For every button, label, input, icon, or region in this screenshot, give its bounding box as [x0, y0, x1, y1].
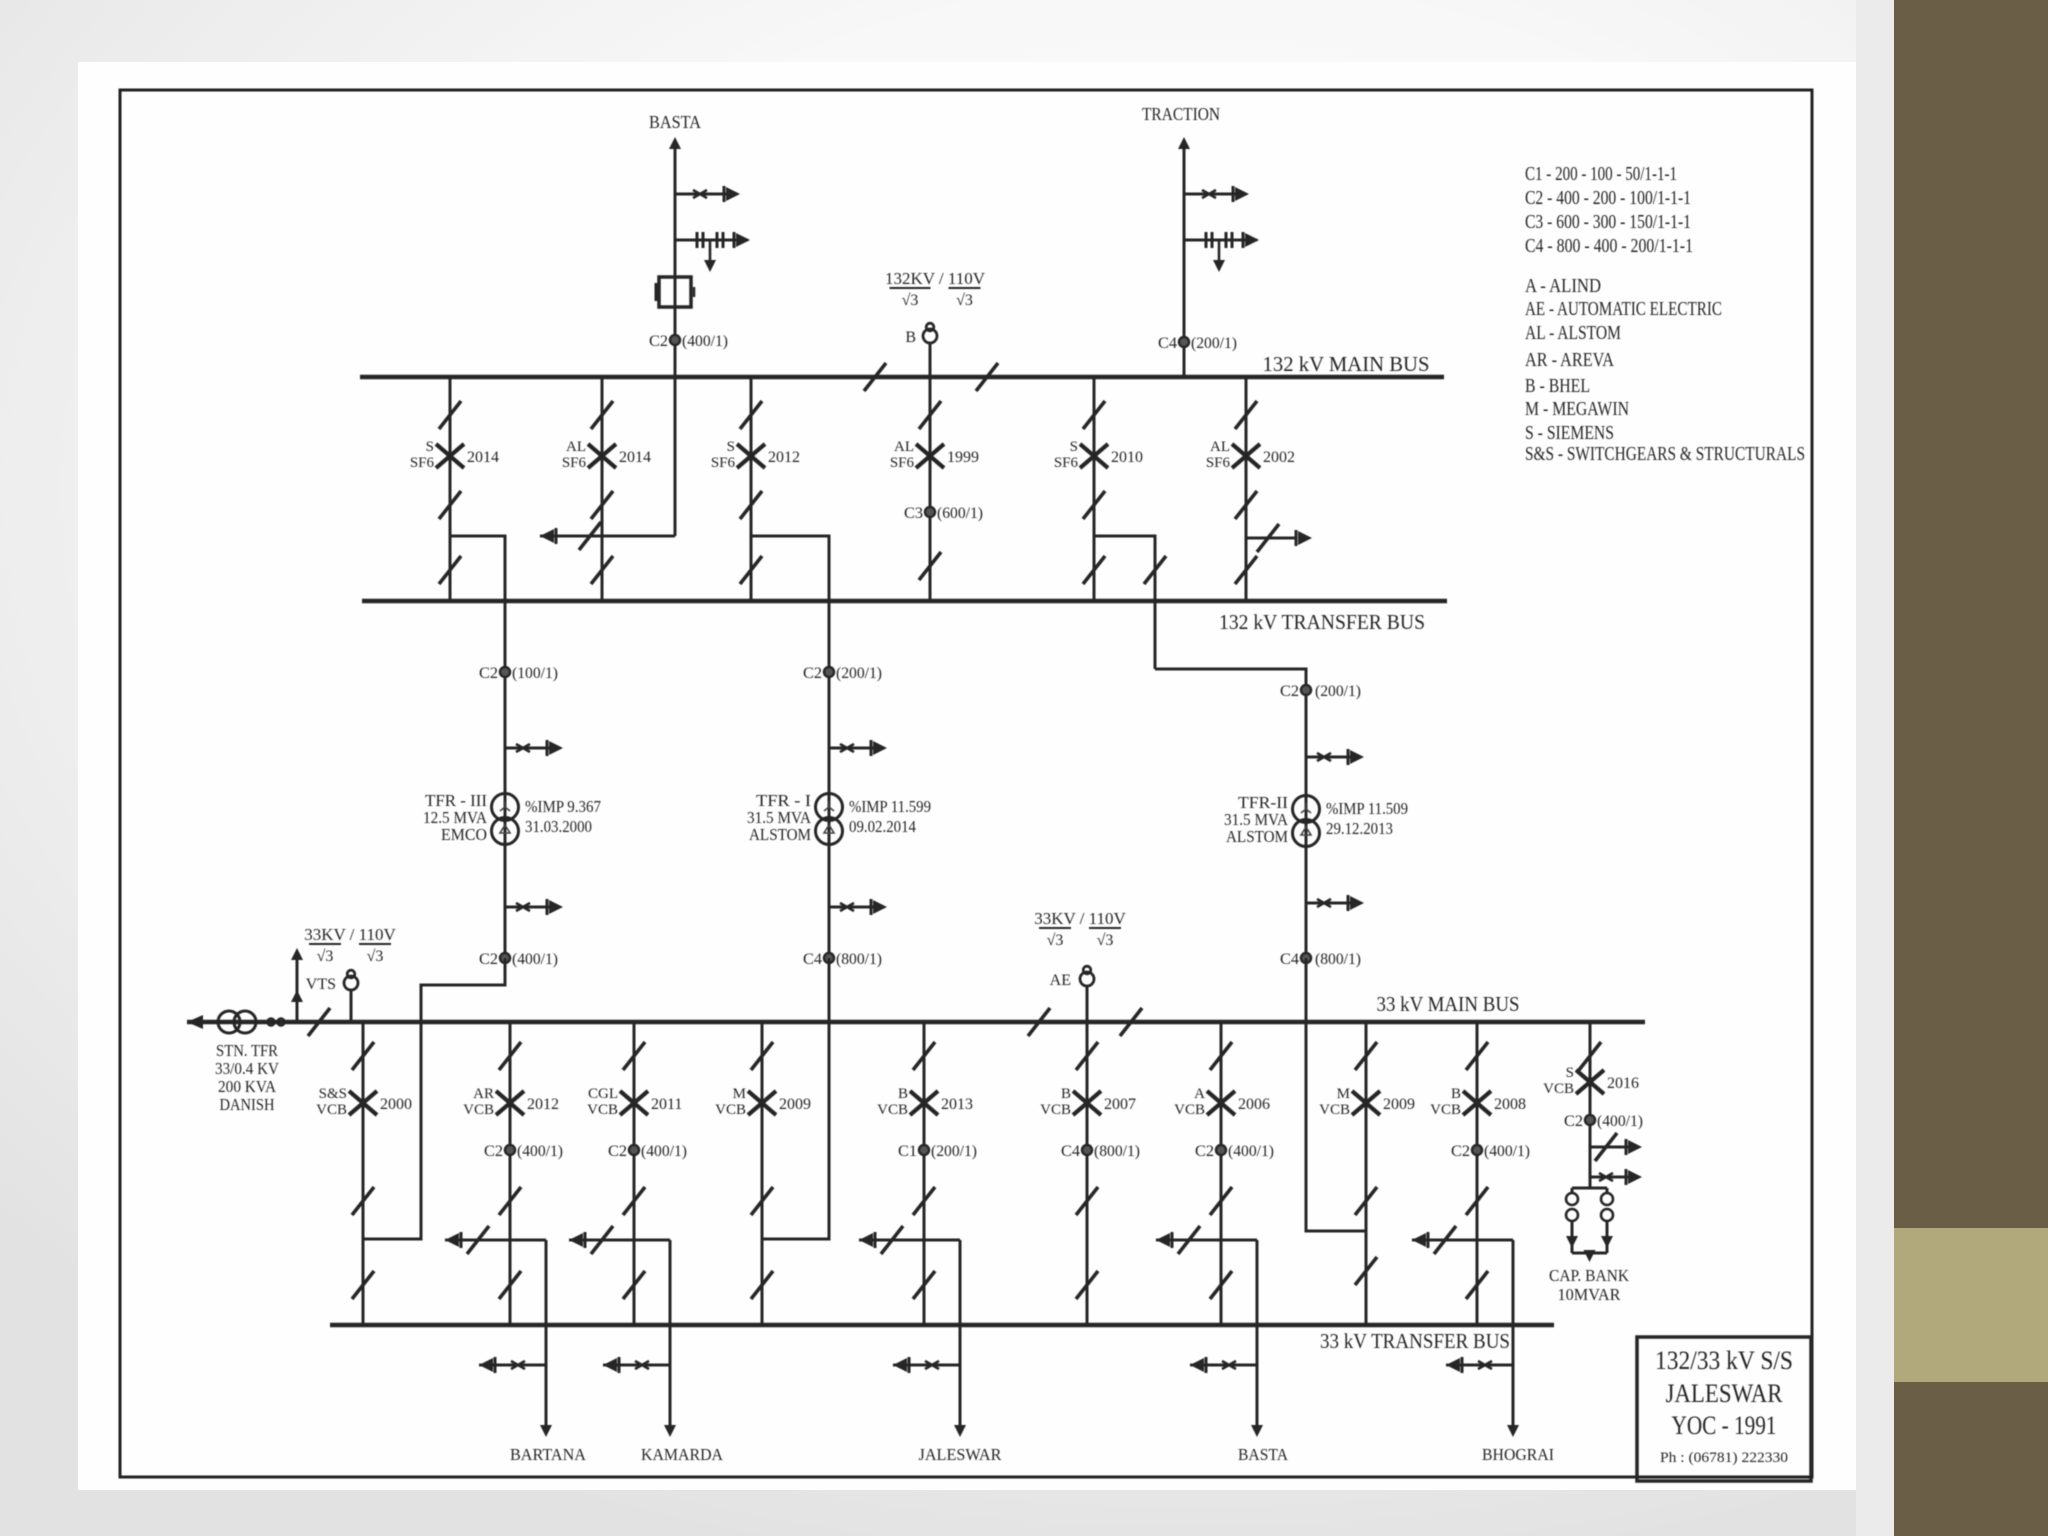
svg-text:SF6: SF6 — [1206, 455, 1231, 471]
svg-text:VCB: VCB — [715, 1102, 746, 1118]
breaker M VCB 2009 — [1352, 1091, 1380, 1115]
isolator above transfer bus, bay S 2014 — [439, 556, 461, 584]
svg-text:(800/1): (800/1) — [836, 951, 882, 968]
svg-text:SF6: SF6 — [711, 455, 736, 471]
isolator below bus, bay S 2016 — [1579, 1042, 1601, 1070]
isolator mid, bay A 2006 — [1210, 1187, 1232, 1215]
isolator above transfer bus, bay S&S 2000 — [352, 1271, 374, 1299]
transfer link horizontal, BARTANA — [445, 1239, 546, 1242]
CT C2 (400/1) bay AR 2012 — [505, 1145, 515, 1155]
CT C2 (400/1) — [500, 953, 510, 963]
isolator mid, bay CGL 2011 — [623, 1187, 645, 1215]
svg-text:09.02.2014: 09.02.2014 — [849, 817, 916, 836]
svg-text:C2: C2 — [608, 1143, 627, 1160]
arrow TRACTION outgoing — [1178, 137, 1190, 149]
svg-text:C2: C2 — [1451, 1143, 1470, 1160]
breaker S SF6 2014 — [436, 444, 464, 468]
transfer link horizontal, BASTA — [1156, 1239, 1257, 1242]
wire TFR-III tail to S&S bay — [363, 958, 505, 1239]
132kV bay S SF6 2014 at x=450 — [449, 377, 452, 601]
CT C4 (200/1) on TRACTION — [1179, 337, 1189, 347]
isolator mid, bay M 2009 — [1355, 1187, 1377, 1215]
svg-text:√3: √3 — [317, 948, 334, 965]
isolator above breaker S 2012 — [740, 401, 762, 429]
outgoing vertical BASTA — [1256, 1240, 1259, 1425]
svg-text:AR - AREVA: AR - AREVA — [1525, 349, 1614, 371]
bottom tap with drawout, BASTA — [1190, 1364, 1257, 1367]
svg-text:TRACTION: TRACTION — [1142, 104, 1220, 124]
isolator above transfer bus, bay AL 2002 — [1235, 556, 1257, 584]
svg-text:%IMP 9.367: %IMP 9.367 — [525, 797, 601, 816]
breaker B VCB 2008 — [1463, 1091, 1491, 1115]
svg-text:C4 - 800 - 400 - 200/1-1-1: C4 - 800 - 400 - 200/1-1-1 — [1525, 235, 1693, 257]
svg-text:(200/1): (200/1) — [1191, 335, 1237, 352]
svg-text:33KV / 110V: 33KV / 110V — [304, 925, 396, 944]
svg-text:2011: 2011 — [651, 1096, 682, 1113]
svg-text:SF6: SF6 — [562, 455, 587, 471]
svg-text:DANISH: DANISH — [220, 1095, 275, 1114]
transformer chain at x=505: ('TFR - III', 62) — [504, 601, 507, 958]
drawout tap with arrow (HV side TFR-II) — [1306, 756, 1352, 759]
isolator below bus, bay B 2013 — [913, 1042, 935, 1070]
svg-text:(200/1): (200/1) — [836, 665, 882, 682]
title box 132/33 kV S/S JALESWAR — [1637, 1337, 1811, 1481]
isolator below breaker AL 2002 — [1235, 491, 1257, 519]
svg-text:C4: C4 — [1280, 951, 1299, 968]
svg-text:M - MEGAWIN: M - MEGAWIN — [1525, 398, 1629, 420]
breaker AL SF6 1999 — [916, 444, 944, 468]
svg-text:AL - ALSTOM: AL - ALSTOM — [1525, 322, 1621, 344]
transformer chain at x=829: ('TFR - I', 55) — [828, 601, 831, 958]
arrow outgoing BASTA — [1251, 1425, 1263, 1437]
isolator mid, bay B 2008 — [1466, 1187, 1488, 1215]
svg-text:√3: √3 — [902, 292, 919, 309]
svg-text:2007: 2007 — [1104, 1096, 1136, 1113]
isolator mid, bay S&S 2000 — [352, 1187, 374, 1215]
svg-text:31.03.2000: 31.03.2000 — [525, 817, 592, 836]
svg-text:CGL: CGL — [588, 1086, 618, 1102]
TFR-II feed jog from transfer-bus crossing — [1154, 601, 1157, 669]
svg-text:C2: C2 — [479, 951, 498, 968]
svg-text:AL: AL — [566, 439, 586, 455]
CT C3 (600/1) on AL 1999 bay — [925, 507, 935, 517]
isolator below bus, bay AR 2012 — [499, 1042, 521, 1070]
CT C2 (400/1) on BASTA — [670, 335, 680, 345]
breaker CGL VCB 2011 — [620, 1091, 648, 1115]
svg-text:AR: AR — [473, 1086, 494, 1102]
arrow outgoing BARTANA — [540, 1425, 552, 1437]
transformer TFR-II 31.5 MVA ALSTOM — [1293, 796, 1320, 847]
svg-text:M: M — [1337, 1086, 1350, 1102]
breaker S SF6 2012 — [737, 444, 765, 468]
svg-text:(200/1): (200/1) — [931, 1143, 977, 1160]
svg-text:ALSTOM: ALSTOM — [1226, 827, 1288, 846]
svg-text:S&S - SWITCHGEARS & STRUCTURAL: S&S - SWITCHGEARS & STRUCTURALS — [1525, 443, 1805, 465]
schematic frame — [120, 90, 1812, 1477]
svg-text:CAP. BANK: CAP. BANK — [1549, 1266, 1630, 1285]
line tap isolator on BASTA — [675, 193, 728, 196]
33 kV transfer bus — [330, 1323, 1554, 1328]
drawout taps with arrows, cap bank feeder — [1590, 1146, 1630, 1149]
svg-text:VTS: VTS — [306, 976, 336, 993]
capacitor bank CAP. BANK 10MVAR — [1572, 1187, 1607, 1190]
33kV bay S&S VCB 2000 at x=363 — [362, 1022, 365, 1325]
svg-text:(400/1): (400/1) — [517, 1143, 563, 1160]
CT C2 (200/1) on TFR-II — [1301, 685, 1311, 695]
svg-text:132 kV TRANSFER BUS: 132 kV TRANSFER BUS — [1219, 610, 1425, 634]
isolator below bus, bay M 2009 — [751, 1042, 773, 1070]
bus isolator on 132 kV main bus (right of PT B) — [976, 363, 998, 391]
CT C2 (400/1) bay CGL 2011 — [629, 1145, 639, 1155]
svg-text:B - BHEL: B - BHEL — [1525, 375, 1590, 397]
svg-text:2000: 2000 — [380, 1096, 412, 1113]
33kV bay S VCB 2016 (capacitor bank) — [1589, 1022, 1592, 1188]
transfer link with arrow at BASTA bay — [674, 377, 677, 536]
svg-text:SF6: SF6 — [410, 455, 435, 471]
svg-text:C2: C2 — [484, 1143, 503, 1160]
isolator above transfer bus, bay B 2007 — [1076, 1271, 1098, 1299]
wire jog bay S-2014 to TFR-III chain — [450, 536, 505, 601]
CT C4 (800/1) on TFR-II — [1301, 953, 1311, 963]
svg-text:C2: C2 — [649, 333, 668, 350]
svg-text:√3: √3 — [1097, 932, 1114, 949]
svg-text:132/33 kV S/S: 132/33 kV S/S — [1655, 1346, 1793, 1375]
svg-text:VCB: VCB — [587, 1102, 618, 1118]
svg-text:S: S — [727, 439, 735, 455]
isolator mid, bay M 2009 — [751, 1187, 773, 1215]
svg-text:2002: 2002 — [1263, 449, 1295, 466]
svg-text:132KV / 110V: 132KV / 110V — [885, 269, 986, 288]
33kV bay M VCB 2009 at x=1366 — [1365, 1022, 1368, 1325]
svg-text:(600/1): (600/1) — [937, 505, 983, 522]
drawout tap with arrow (HV side) — [829, 747, 875, 750]
drawout tap with arrow (LV side TFR-II) — [1306, 902, 1352, 905]
isolator on TFR-II jog leg — [1144, 556, 1166, 584]
33kV bay B VCB 2013 at x=924 — [923, 1022, 926, 1325]
svg-text:C4: C4 — [1061, 1143, 1080, 1160]
outgoing vertical JALESWAR — [959, 1240, 962, 1425]
svg-text:29.12.2013: 29.12.2013 — [1326, 819, 1393, 838]
svg-text:S: S — [1070, 439, 1078, 455]
svg-text:B: B — [898, 1086, 908, 1102]
svg-text:(100/1): (100/1) — [512, 665, 558, 682]
breaker B VCB 2007 — [1073, 1091, 1101, 1115]
svg-text:C3 - 600 - 300 - 150/1-1-1: C3 - 600 - 300 - 150/1-1-1 — [1525, 211, 1691, 233]
outgoing vertical BARTANA — [545, 1240, 548, 1425]
svg-text:2012: 2012 — [527, 1096, 559, 1113]
svg-text:2016: 2016 — [1607, 1075, 1639, 1092]
svg-text:√3: √3 — [1047, 932, 1064, 949]
svg-text:C1 - 200 - 100 - 50/1-1-1: C1 - 200 - 100 - 50/1-1-1 — [1525, 163, 1677, 185]
breaker M VCB 2009 — [748, 1091, 776, 1115]
transfer link horizontal, JALESWAR — [859, 1239, 960, 1242]
outgoing vertical KAMARDA — [669, 1240, 672, 1425]
CT C2 (400/1) bay B 2008 — [1472, 1145, 1482, 1155]
isolator mid, bay B 2013 — [913, 1187, 935, 1215]
isolator below breaker AL 2014 — [591, 491, 613, 519]
svg-text:(400/1): (400/1) — [1597, 1113, 1643, 1130]
arrow outgoing BHOGRAI — [1507, 1425, 1519, 1437]
transformer chain TFR-II — [1305, 700, 1308, 958]
svg-text:Ph : (06781) 222330: Ph : (06781) 222330 — [1660, 1450, 1788, 1466]
isolator below bus, bay A 2006 — [1210, 1042, 1232, 1070]
33kV bay AR VCB 2012 at x=510 — [509, 1022, 512, 1325]
drawout tap with arrow (HV side) — [505, 747, 551, 750]
svg-text:VCB: VCB — [1430, 1102, 1461, 1118]
svg-text:KAMARDA: KAMARDA — [641, 1445, 724, 1464]
svg-text:BASTA: BASTA — [1238, 1445, 1289, 1464]
wire jog bay S-2012 to TFR-I chain — [751, 536, 829, 601]
transfer link horizontal, BHOGRAI — [1412, 1239, 1513, 1242]
wire BASTA feeder vertical — [674, 148, 677, 377]
svg-text:SF6: SF6 — [1054, 455, 1079, 471]
svg-text:B: B — [905, 329, 916, 346]
arrow outgoing KAMARDA — [664, 1425, 676, 1437]
line trap box on BASTA — [659, 277, 691, 307]
bus isolator near STN TFR — [308, 1008, 330, 1036]
svg-text:AE - AUTOMATIC ELECTRIC: AE - AUTOMATIC ELECTRIC — [1525, 298, 1722, 320]
isolator above breaker AL 2002 — [1235, 401, 1257, 429]
svg-text:VCB: VCB — [1040, 1102, 1071, 1118]
svg-text:2012: 2012 — [768, 449, 800, 466]
breaker B VCB 2013 — [910, 1091, 938, 1115]
outgoing vertical BHOGRAI — [1512, 1240, 1515, 1425]
svg-text:VCB: VCB — [316, 1102, 347, 1118]
wave trap / CVT tap on BASTA — [675, 239, 748, 242]
isolator above breaker S 2010 — [1083, 401, 1105, 429]
isolator above transfer bus, bay A 2006 — [1210, 1271, 1232, 1299]
arrow outgoing JALESWAR — [954, 1425, 966, 1437]
svg-text:C2: C2 — [803, 665, 822, 682]
isolator below breaker S 2012 — [740, 491, 762, 519]
svg-text:√3: √3 — [956, 292, 973, 309]
isolator above breaker S 2014 — [439, 401, 461, 429]
svg-text:SF6: SF6 — [890, 455, 915, 471]
breaker AR VCB 2012 — [496, 1091, 524, 1115]
breaker S VCB 2016 — [1576, 1070, 1604, 1094]
svg-text:2013: 2013 — [941, 1096, 973, 1113]
bus isolator on 132 kV main bus (left of PT B) — [864, 363, 886, 391]
isolator above transfer bus, bay B 2013 — [913, 1271, 935, 1299]
breaker AL SF6 2002 — [1232, 444, 1260, 468]
isolator below breaker S 2014 — [439, 491, 461, 519]
svg-text:33KV / 110V: 33KV / 110V — [1034, 909, 1126, 928]
svg-text:YOC - 1991: YOC - 1991 — [1672, 1411, 1777, 1440]
isolator below bus, bay M 2009 — [1355, 1042, 1377, 1070]
isolator below bus, bay S&S 2000 — [352, 1042, 374, 1070]
CT C2 (200/1) — [824, 667, 834, 677]
isolator above transfer bus, bay M 2009 — [1355, 1257, 1377, 1285]
svg-text:C4: C4 — [1158, 335, 1177, 352]
132kV bay AL SF6 2014 at x=602 — [601, 377, 604, 601]
33kV bay CGL VCB 2011 at x=634 — [633, 1022, 636, 1325]
132kV bay AL SF6 1999 at x=930 — [929, 377, 932, 601]
isolator below breaker S 2010 — [1083, 491, 1105, 519]
svg-text:C2: C2 — [479, 665, 498, 682]
bottom tap with drawout, BARTANA — [479, 1364, 546, 1367]
bottom tap with drawout, JALESWAR — [893, 1364, 960, 1367]
svg-text:VCB: VCB — [463, 1102, 494, 1118]
svg-text:C1: C1 — [898, 1143, 917, 1160]
svg-text:(400/1): (400/1) — [682, 333, 728, 350]
svg-text:C2 - 400 - 200 - 100/1-1-1: C2 - 400 - 200 - 100/1-1-1 — [1525, 187, 1691, 209]
wire TRACTION feeder vertical — [1183, 148, 1186, 377]
isolator below bus, bay CGL 2011 — [623, 1042, 645, 1070]
isolator above breaker AL 2014 — [591, 401, 613, 429]
isolator below bus, bay B 2008 — [1466, 1042, 1488, 1070]
svg-text:JALESWAR: JALESWAR — [919, 1445, 1003, 1464]
isolator mid, bay B 2007 — [1076, 1187, 1098, 1215]
isolator mid, bay AR 2012 — [499, 1187, 521, 1215]
breaker AL SF6 2014 — [588, 444, 616, 468]
svg-text:(400/1): (400/1) — [1228, 1143, 1274, 1160]
33kV bay A VCB 2006 at x=1221 — [1220, 1022, 1223, 1325]
svg-text:ALSTOM: ALSTOM — [749, 825, 811, 844]
drawout tap with arrow (LV side) — [829, 906, 875, 909]
svg-text:2014: 2014 — [619, 449, 651, 466]
svg-text:B: B — [1061, 1086, 1071, 1102]
svg-text:VCB: VCB — [877, 1102, 908, 1118]
svg-text:(800/1): (800/1) — [1094, 1143, 1140, 1160]
132 kV transfer bus — [362, 599, 1447, 604]
line tap isolator on TRACTION — [1184, 193, 1237, 196]
isolator above transfer bus, bay CGL 2011 — [623, 1271, 645, 1299]
CT C2 (400/1) bay S 2016 — [1585, 1115, 1595, 1125]
svg-text:132 kV MAIN BUS: 132 kV MAIN BUS — [1263, 352, 1430, 376]
svg-text:(800/1): (800/1) — [1315, 951, 1361, 968]
svg-text:B: B — [1451, 1086, 1461, 1102]
CT C1 (200/1) bay B 2013 — [919, 1145, 929, 1155]
svg-text:BASTA: BASTA — [649, 112, 701, 132]
transfer link with arrow at bay AL 2002 — [1246, 537, 1296, 540]
33kV bay B VCB 2008 at x=1477 — [1476, 1022, 1479, 1325]
svg-text:STN. TFR: STN. TFR — [216, 1041, 279, 1060]
svg-text:VCB: VCB — [1174, 1102, 1205, 1118]
CT C4 (800/1) — [824, 953, 834, 963]
svg-text:AE: AE — [1050, 972, 1071, 989]
isolator above transfer bus, bay B 2008 — [1466, 1271, 1488, 1299]
breaker S&S VCB 2000 — [349, 1091, 377, 1115]
svg-text:2008: 2008 — [1494, 1096, 1526, 1113]
svg-text:S: S — [426, 439, 434, 455]
svg-text:C2: C2 — [1564, 1113, 1583, 1130]
isolator above transfer bus, bay S 2010 — [1083, 556, 1105, 584]
svg-text:C2: C2 — [1195, 1143, 1214, 1160]
svg-text:S - SIEMENS: S - SIEMENS — [1525, 422, 1614, 444]
isolator above transfer bus, bay S 2012 — [740, 556, 762, 584]
svg-text:2009: 2009 — [779, 1096, 811, 1113]
isolator above breaker AL 1999 — [919, 401, 941, 429]
svg-text:VCB: VCB — [1319, 1102, 1350, 1118]
svg-text:(400/1): (400/1) — [641, 1143, 687, 1160]
CT C2 (400/1) bay A 2006 — [1216, 1145, 1226, 1155]
svg-text:2009: 2009 — [1383, 1096, 1415, 1113]
svg-text:BHOGRAI: BHOGRAI — [1482, 1445, 1554, 1464]
breaker S SF6 2010 — [1080, 444, 1108, 468]
svg-text:33 kV MAIN BUS: 33 kV MAIN BUS — [1377, 992, 1520, 1016]
CT C4 (800/1) bay B 2007 — [1082, 1145, 1092, 1155]
isolator above transfer bus, bay AL 2014 — [591, 556, 613, 584]
33kV bay B VCB 2007 at x=1087 — [1086, 1022, 1089, 1325]
132kV bay AL SF6 2002 at x=1246 — [1245, 377, 1248, 601]
svg-text:JALESWAR: JALESWAR — [1666, 1379, 1784, 1408]
isolator above transfer bus, bay AR 2012 — [499, 1271, 521, 1299]
svg-text:2006: 2006 — [1238, 1096, 1270, 1113]
svg-text:S: S — [1566, 1065, 1574, 1081]
svg-text:(400/1): (400/1) — [512, 951, 558, 968]
svg-text:VCB: VCB — [1543, 1081, 1574, 1097]
svg-text:A: A — [1194, 1086, 1205, 1102]
isolator below CT C3 — [919, 552, 941, 580]
svg-text:(400/1): (400/1) — [1484, 1143, 1530, 1160]
33 kV main bus — [187, 1020, 1645, 1025]
svg-text:33 kV TRANSFER BUS: 33 kV TRANSFER BUS — [1320, 1329, 1510, 1353]
svg-text:10MVAR: 10MVAR — [1558, 1285, 1622, 1304]
svg-text:2010: 2010 — [1111, 449, 1143, 466]
svg-text:200 KVA: 200 KVA — [218, 1077, 277, 1096]
svg-text:%IMP 11.509: %IMP 11.509 — [1326, 799, 1408, 818]
svg-text:√3: √3 — [367, 948, 384, 965]
svg-text:%IMP 11.599: %IMP 11.599 — [849, 797, 931, 816]
drawout tap with arrow (LV side) — [505, 906, 551, 909]
transfer link horizontal, KAMARDA — [569, 1239, 670, 1242]
svg-text:(200/1): (200/1) — [1315, 683, 1361, 700]
bottom tap with drawout, KAMARDA — [603, 1364, 670, 1367]
svg-text:C4: C4 — [803, 951, 822, 968]
svg-text:2014: 2014 — [467, 449, 499, 466]
bus isolator right of AE PT — [1120, 1008, 1142, 1036]
isolator above transfer bus, bay M 2009 — [751, 1271, 773, 1299]
132kV bay S SF6 2012 at x=751 — [750, 377, 753, 601]
svg-text:A - ALIND: A - ALIND — [1525, 275, 1601, 297]
transformer ('TFR - I', 55) — [816, 794, 843, 845]
svg-text:C3: C3 — [904, 505, 923, 522]
transformer ('TFR - III', 62) — [492, 794, 519, 845]
isolator below bus, bay B 2007 — [1076, 1042, 1098, 1070]
wire TFR-II tail to M-2009 bay (right) — [1306, 958, 1366, 1231]
wire TFR-I tail to M-2009 bay — [762, 958, 829, 1239]
svg-text:33/0.4 KV: 33/0.4 KV — [215, 1059, 280, 1078]
breaker A VCB 2006 — [1207, 1091, 1235, 1115]
33kV bay M VCB 2009 at x=762 — [761, 1022, 764, 1325]
svg-text:1999: 1999 — [947, 449, 979, 466]
svg-text:BARTANA: BARTANA — [510, 1445, 587, 1464]
wire jog bay S-2010 toward TFR-II chain — [1094, 536, 1155, 601]
bus isolator left of AE PT — [1028, 1008, 1050, 1036]
bottom tap with drawout, BHOGRAI — [1446, 1364, 1513, 1367]
132 kV main bus — [360, 375, 1444, 380]
station transformer STN TFR 33/0.4 KV — [218, 1011, 256, 1033]
arrow BASTA outgoing — [669, 137, 681, 149]
CT C2 (100/1) — [500, 667, 510, 677]
svg-text:AL: AL — [1210, 439, 1230, 455]
svg-text:AL: AL — [894, 439, 914, 455]
lightning arrester / feeder arrow up near STN TFR — [296, 958, 299, 1022]
132kV bay S SF6 2010 at x=1094 — [1093, 377, 1096, 601]
svg-text:EMCO: EMCO — [441, 825, 487, 844]
svg-text:M: M — [733, 1086, 746, 1102]
wave trap / CVT tap on TRACTION — [1184, 239, 1257, 242]
svg-text:S&S: S&S — [319, 1086, 347, 1102]
svg-text:C2: C2 — [1280, 683, 1299, 700]
